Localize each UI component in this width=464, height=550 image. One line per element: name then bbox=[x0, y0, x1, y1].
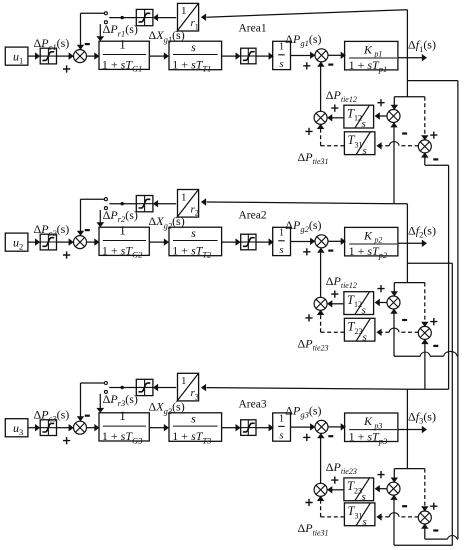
plus sign at S2b bbox=[303, 248, 310, 255]
dashed wire f3 into tie summer R3 bbox=[424, 469, 426, 507]
summing junction S3a bbox=[74, 421, 87, 434]
plus sign at S2a bbox=[63, 251, 70, 258]
plus sign at S3a bbox=[63, 437, 70, 444]
minus sign at S3a bbox=[85, 415, 90, 417]
wire T12 to tie summer L1 bbox=[332, 117, 343, 119]
wire governor to turbine bbox=[150, 55, 164, 57]
saturation block SAT-c2 bbox=[40, 234, 56, 250]
tie summer M1 bbox=[387, 110, 400, 123]
tie summer R2 bbox=[418, 326, 431, 339]
minus sign at S1b bbox=[328, 64, 333, 66]
power system block Kp2/(1+sTp2) bbox=[345, 227, 398, 256]
svg-text:s: s bbox=[279, 244, 283, 256]
arrow dP_r2 into governor bbox=[99, 210, 101, 223]
junction dot on governor feedback wire bbox=[121, 16, 124, 19]
droop block 1/r1 bbox=[178, 3, 199, 31]
distribution line for f2 bbox=[394, 282, 425, 284]
dead-band block SAT-r1 bbox=[136, 9, 153, 25]
wire S2b to Kp2 block bbox=[328, 240, 341, 242]
rate limiter block SAT-g3 bbox=[241, 420, 256, 436]
wire T23 to tie summer L3 bbox=[332, 489, 343, 491]
integrator block 1/s bbox=[273, 413, 291, 441]
wire M2 to T12 block bbox=[380, 302, 388, 304]
plus sign at L3 bottom bbox=[305, 499, 312, 506]
minus sign at M2 bottom bbox=[402, 319, 407, 321]
dead-band block SAT-r2 bbox=[136, 196, 153, 212]
frequency tap vertical f2 bbox=[406, 204, 408, 283]
wire governor to turbine bbox=[150, 241, 164, 243]
wire turbine to rate limiter bbox=[222, 427, 236, 429]
svg-text:1: 1 bbox=[119, 408, 126, 423]
droop block 1/r2 bbox=[178, 190, 199, 218]
dashed wire T31 to L1 bbox=[321, 145, 345, 147]
plus sign at S1b bbox=[303, 62, 310, 69]
minus sign at S2a bbox=[85, 229, 90, 231]
plus sign at S1a bbox=[63, 65, 70, 72]
wire 1/r3 to dead-band bbox=[158, 387, 176, 389]
tie summer M2 bbox=[387, 296, 400, 309]
summing junction S1a bbox=[74, 50, 87, 63]
tie block T23/s upper bbox=[344, 478, 374, 501]
wire df2 branch to mid rail bbox=[407, 262, 452, 264]
svg-text:s: s bbox=[191, 226, 196, 240]
plus sign at S3b bbox=[303, 434, 310, 441]
droop block 1/r3 bbox=[178, 373, 199, 401]
wire u2 to saturation bbox=[28, 241, 35, 243]
rate limiter block SAT-g1 bbox=[241, 48, 256, 64]
plus sign at L2 right bbox=[331, 291, 338, 298]
wire switch to dead-band block bbox=[109, 17, 136, 19]
arrow dP_r3 into governor bbox=[99, 394, 101, 408]
summing junction S1b bbox=[315, 49, 328, 62]
plus sign at R3 top bbox=[430, 503, 437, 510]
wire M3 to T23 block bbox=[380, 488, 388, 490]
wire switch to dead-band block bbox=[109, 387, 136, 389]
wire M1 to T12 block bbox=[380, 115, 388, 117]
svg-text:1: 1 bbox=[119, 223, 126, 238]
wire S3b to Kp3 block bbox=[328, 426, 341, 428]
dashed wire T23 to L2 bbox=[321, 331, 345, 333]
minus sign at M3 bottom bbox=[402, 505, 407, 507]
wire rate limiter to integrator bbox=[256, 427, 269, 429]
output wire df1(s) bbox=[398, 57, 422, 59]
svg-text:s: s bbox=[362, 118, 366, 130]
summing junction S2b bbox=[315, 235, 328, 248]
svg-text:1: 1 bbox=[279, 228, 284, 239]
df3 branch line bbox=[407, 388, 448, 390]
tie block T12/s upper bbox=[344, 292, 374, 315]
plus sign at M1 top bbox=[377, 99, 384, 106]
dashed wire f2 into tie summer R2 bbox=[424, 283, 426, 323]
wire integrator to summer S3b bbox=[290, 426, 310, 428]
minus sign at M1 bottom bbox=[402, 132, 407, 134]
wire T12 to tie summer L2 bbox=[332, 303, 343, 305]
arrow dP_r1 into governor bbox=[99, 24, 101, 36]
minus sign at S2b bbox=[328, 250, 333, 252]
feedback switch to S1a bbox=[81, 12, 105, 14]
wire f2 into tie summer M2 bbox=[393, 283, 395, 292]
dead-band block SAT-r3 bbox=[136, 379, 153, 395]
tie summer M3 bbox=[387, 482, 400, 495]
wire saturation to summer S3a bbox=[57, 427, 70, 429]
svg-text:Area1: Area1 bbox=[239, 23, 267, 35]
svg-text:s: s bbox=[363, 331, 367, 343]
tie block T23/s lower bbox=[344, 318, 375, 341]
switch contact lower bbox=[104, 390, 107, 393]
dashed wire T31 to L3 bbox=[321, 516, 345, 518]
svg-text:s: s bbox=[279, 58, 283, 70]
svg-text:1: 1 bbox=[279, 413, 284, 424]
tie-line feedback into S2b bbox=[320, 252, 322, 297]
wire 1/r2 to dead-band bbox=[158, 203, 176, 205]
plus sign at M3 top bbox=[377, 471, 384, 478]
junction dot on governor feedback wire bbox=[121, 202, 124, 205]
df3 rail vertical bbox=[448, 165, 450, 389]
switch contact upper bbox=[104, 382, 107, 385]
tie summer L1 bbox=[314, 111, 327, 124]
wire S1a to governor bbox=[86, 55, 94, 57]
distribution line for f3 bbox=[394, 468, 425, 470]
integrator block 1/s bbox=[273, 227, 291, 255]
summing junction S3b bbox=[315, 420, 328, 433]
tie block T12/s upper bbox=[344, 105, 374, 128]
wire u1 to saturation bbox=[28, 55, 35, 57]
wire governor to turbine bbox=[150, 427, 164, 429]
saturation block SAT-c1 bbox=[40, 48, 56, 64]
plus sign at L1 right bbox=[331, 105, 338, 112]
saturation block SAT-c3 bbox=[40, 420, 56, 436]
wire frequency tap to 1/r2 bbox=[207, 202, 408, 204]
tie block T31/s lower bbox=[344, 132, 375, 155]
wire integrator to summer S2b bbox=[290, 241, 310, 243]
feedback switch to S3a bbox=[81, 382, 105, 384]
svg-text:s: s bbox=[362, 305, 366, 317]
plus sign at L2 bottom bbox=[305, 314, 312, 321]
plus sign at R2 top bbox=[430, 318, 437, 325]
tie summer R3 bbox=[418, 511, 431, 524]
dashed wire f1 into tie summer R1 bbox=[424, 97, 426, 136]
switch contact upper bbox=[104, 12, 107, 15]
input block u2 bbox=[5, 233, 28, 251]
wire frequency tap to 1/r3 bbox=[207, 388, 408, 390]
tie summer R1 bbox=[418, 140, 431, 153]
tie block T31/s lower bbox=[344, 503, 375, 526]
wire turbine to rate limiter bbox=[222, 55, 236, 57]
svg-text:Area3: Area3 bbox=[239, 399, 267, 411]
rate limiter block SAT-g2 bbox=[241, 234, 256, 250]
minus sign at S3b bbox=[328, 435, 333, 437]
wire S2a to governor bbox=[86, 241, 94, 243]
switch contact lower bbox=[104, 207, 107, 210]
plus sign at L3 right bbox=[331, 477, 338, 484]
tie-line feedback into S3b bbox=[320, 438, 322, 484]
svg-text:Area2: Area2 bbox=[239, 210, 267, 222]
output wire df3(s) bbox=[398, 429, 422, 431]
minus sign at R2 bottom bbox=[433, 345, 438, 347]
power system block Kp1/(1+sTp1) bbox=[345, 41, 398, 70]
input block u1 bbox=[5, 47, 28, 65]
plus sign at R1 top bbox=[430, 132, 437, 139]
svg-text:1: 1 bbox=[181, 375, 187, 387]
governor block 1/(1+sT_G1) bbox=[99, 41, 149, 69]
wire u3 to saturation bbox=[28, 427, 35, 429]
turbine block s/(1+sT_T3) bbox=[169, 413, 222, 442]
wire df1 up into M2 bbox=[393, 313, 395, 356]
wire integrator to summer S1b bbox=[290, 55, 310, 57]
wire f1 into tie summer M1 bbox=[393, 97, 395, 106]
mid rail df2 vertical bbox=[451, 263, 453, 545]
wire df1 to M2 with hops bbox=[456, 355, 459, 357]
wire S1b to Kp1 block bbox=[328, 54, 341, 56]
dashed wire R3 to T31 block bbox=[399, 516, 419, 518]
input block u3 bbox=[5, 419, 28, 437]
tie-line feedback into S1b bbox=[320, 66, 322, 111]
wire S3a to governor bbox=[86, 427, 94, 429]
dashed wire R2 to T23 block bbox=[399, 331, 419, 333]
governor block 1/(1+sT_G2) bbox=[99, 227, 149, 255]
turbine block s/(1+sT_T1) bbox=[169, 41, 222, 69]
minus sign at S1a bbox=[85, 43, 90, 45]
frequency tap vertical f1 bbox=[406, 10, 408, 97]
svg-text:s: s bbox=[191, 40, 196, 54]
dashed wire R1 to T31 block bbox=[399, 145, 419, 147]
output wire df2(s) bbox=[398, 242, 422, 244]
switch contact upper bbox=[104, 198, 107, 201]
tie summer L2 bbox=[314, 297, 327, 310]
wire 1/r1 to dead-band bbox=[158, 17, 176, 19]
svg-text:1: 1 bbox=[119, 37, 126, 52]
wire df3 to R1 bbox=[425, 164, 449, 166]
svg-text:s: s bbox=[363, 145, 367, 157]
minus sign at R1 bottom bbox=[433, 158, 438, 160]
svg-text:s: s bbox=[362, 491, 366, 503]
right rail df1 vertical bbox=[457, 81, 459, 357]
svg-text:s: s bbox=[363, 516, 367, 528]
wire df1 to R3 with hop bbox=[425, 538, 448, 540]
svg-text:s: s bbox=[279, 430, 283, 442]
wire df3 up into R2 bbox=[424, 339, 426, 389]
svg-text:1: 1 bbox=[279, 42, 284, 53]
svg-text:s: s bbox=[191, 411, 196, 425]
plus sign at L1 bottom bbox=[305, 128, 312, 135]
power system block Kp3/(1+sTp3) bbox=[345, 413, 398, 442]
governor block 1/(1+sT_G3) bbox=[99, 413, 149, 441]
svg-text:1: 1 bbox=[181, 5, 187, 17]
plus sign at M2 top bbox=[377, 285, 384, 292]
turbine block s/(1+sT_T2) bbox=[169, 227, 222, 256]
wire rate limiter to integrator bbox=[256, 55, 269, 57]
wire f3 into tie summer M3 bbox=[393, 469, 395, 479]
wire switch to dead-band block bbox=[109, 203, 136, 205]
wire df1 up into R3 bbox=[424, 528, 426, 539]
wire turbine to rate limiter bbox=[222, 241, 236, 243]
minus sign at R3 bottom bbox=[433, 529, 438, 531]
frequency tap vertical f3 bbox=[406, 389, 408, 468]
wire df1 branch to right rail bbox=[407, 80, 458, 82]
switch contact lower bbox=[104, 21, 107, 24]
summing junction S2a bbox=[74, 236, 87, 249]
wire frequency tap to 1/r1 bbox=[207, 10, 408, 18]
tie summer L3 bbox=[314, 483, 327, 496]
wire df2 to M3 bbox=[394, 544, 452, 546]
svg-text:1: 1 bbox=[181, 191, 187, 203]
wire rate limiter to integrator bbox=[256, 241, 269, 243]
feedback switch to S2a bbox=[81, 198, 105, 200]
distribution line for f1 bbox=[394, 96, 425, 98]
wire df2 up into M1 bbox=[393, 122, 395, 203]
integrator block 1/s bbox=[273, 41, 291, 69]
wire saturation to summer S2a bbox=[57, 241, 70, 243]
junction dot on governor feedback wire bbox=[121, 386, 124, 389]
wire saturation to summer S1a bbox=[57, 55, 70, 57]
